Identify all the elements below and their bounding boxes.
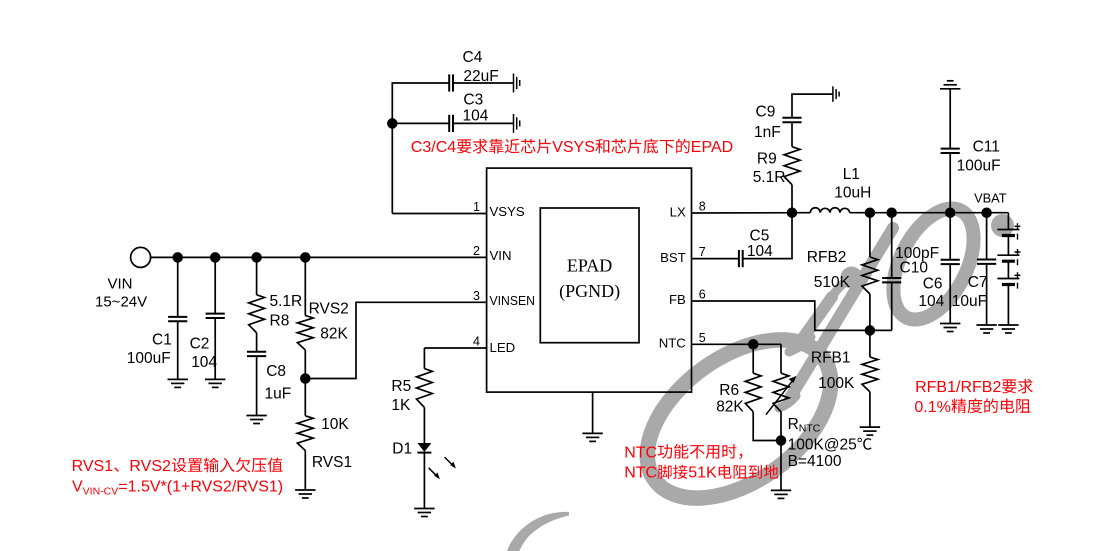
node VIN-RVS2 — [301, 253, 310, 262]
node FB divider — [866, 326, 875, 335]
svg-text:(PGND): (PGND) — [559, 281, 620, 302]
svg-text:EPAD: EPAD — [691, 139, 733, 156]
wire C2 to gnd — [214, 318, 216, 379]
svg-text:RVS2: RVS2 — [309, 301, 349, 318]
node RVS2-RVS1 — [301, 374, 310, 383]
resistor R8 — [249, 295, 265, 333]
svg-text:6: 6 — [699, 288, 706, 302]
svg-text:VINSEN: VINSEN — [490, 293, 536, 308]
capacitor C5 — [739, 250, 743, 267]
node VIN-C1 — [173, 253, 182, 262]
svg-text:R9: R9 — [757, 151, 777, 168]
svg-text:NTC: NTC — [659, 336, 687, 351]
wire R9 lead — [791, 185, 793, 213]
ground RNTC — [771, 490, 791, 498]
ground C3 — [514, 114, 520, 133]
ground C1 — [168, 379, 188, 387]
watermark letter C — [503, 512, 569, 551]
svg-text:82K: 82K — [320, 326, 348, 343]
capacitor C2 — [206, 314, 225, 318]
svg-text:2: 2 — [473, 244, 480, 258]
wire RVS1 to gnd — [304, 451, 306, 491]
svg-text:B=4100: B=4100 — [788, 453, 842, 470]
capacitor C8 — [247, 352, 266, 356]
svg-text:RFB1/RFB2: RFB1/RFB2 — [915, 379, 1001, 396]
capacitor C9 — [782, 118, 801, 122]
node LX — [788, 208, 797, 217]
node VBAT-C6 — [946, 208, 955, 217]
wire C4 to gnd — [453, 82, 514, 84]
thermistor arrow — [766, 380, 794, 415]
svg-text:100K@25: 100K@25 — [788, 437, 857, 454]
node VIN-C2 — [211, 253, 220, 262]
wire RVS2-RVS1 — [304, 350, 306, 416]
ground C11 top — [940, 81, 960, 89]
capacitor C3 — [449, 115, 453, 132]
capacitor C6 — [941, 260, 960, 264]
svg-text:RVS1: RVS1 — [312, 454, 352, 471]
wire C6 to gnd — [949, 264, 951, 323]
node VIN-R8 — [252, 253, 261, 262]
ground RFB1 — [860, 427, 880, 435]
svg-text:VSYS: VSYS — [552, 139, 595, 156]
svg-text:D1: D1 — [392, 441, 412, 458]
wire R8 lead — [256, 257, 258, 294]
resistor RFB1 — [862, 357, 878, 392]
svg-text:C4: C4 — [463, 49, 483, 66]
ground C4 — [514, 74, 520, 93]
op-amp U1 charger IC body — [487, 168, 692, 392]
svg-text:510K: 510K — [814, 274, 851, 291]
watermark period — [991, 214, 1014, 237]
wire R5 lead — [423, 348, 425, 369]
svg-text:51K: 51K — [688, 465, 717, 482]
svg-text:RFB2: RFB2 — [807, 249, 847, 266]
svg-text:NTC: NTC — [624, 444, 657, 461]
wire RFB1 lead top — [869, 330, 871, 357]
svg-text:4: 4 — [473, 335, 480, 349]
wire R9-C9 — [791, 122, 793, 147]
wire C1 to gnd — [177, 321, 179, 379]
wire C3 branch — [392, 122, 449, 124]
resistor RVS2 — [297, 316, 313, 351]
thermistor RNTC — [773, 373, 789, 412]
wire C7 to gnd — [986, 264, 988, 325]
wire LED pin — [424, 347, 486, 349]
wire C8 to gnd — [256, 356, 258, 415]
resistor R9 — [784, 147, 800, 185]
inductor L1 — [810, 208, 849, 213]
svg-text:3: 3 — [473, 289, 480, 303]
ground C6 — [940, 324, 960, 332]
svg-text:104: 104 — [747, 243, 773, 260]
svg-text:NTC: NTC — [624, 465, 657, 482]
wire D1 to gnd — [423, 453, 425, 509]
wire C1 lead — [177, 257, 179, 317]
svg-text:C3/C4: C3/C4 — [411, 139, 456, 156]
wire BST pin — [692, 258, 739, 260]
svg-text:FB: FB — [669, 292, 686, 307]
ground D1 — [414, 509, 434, 517]
wire C7 lead — [986, 213, 988, 260]
svg-text:100K: 100K — [818, 375, 855, 392]
wire C5 to LX — [743, 213, 792, 259]
svg-text:BST: BST — [660, 250, 686, 265]
ground C7 — [976, 325, 996, 333]
capacitor C1 — [168, 317, 187, 321]
watermark letter r — [789, 267, 863, 353]
svg-text:C2: C2 — [190, 335, 210, 352]
wire C10 lead top — [891, 213, 893, 278]
ground C2 — [205, 379, 225, 387]
wire C11 lead bot — [949, 153, 951, 213]
wire R5-D1 — [423, 407, 425, 443]
wire chip gnd stem — [592, 392, 594, 433]
svg-text:1uF: 1uF — [265, 385, 292, 402]
wire C11 lead top — [949, 89, 951, 149]
wire RFB1 to gnd — [869, 392, 871, 427]
svg-text:LED: LED — [490, 340, 516, 355]
svg-text:R6: R6 — [719, 382, 739, 399]
svg-text:C3: C3 — [463, 91, 483, 108]
svg-text:8: 8 — [699, 200, 706, 214]
svg-text:104: 104 — [191, 354, 217, 371]
resistor R6 — [745, 373, 761, 412]
svg-text:5.1R: 5.1R — [270, 293, 303, 310]
ground chip EPAD — [582, 433, 602, 441]
node VBAT-C7 — [982, 208, 991, 217]
svg-text:R8: R8 — [270, 313, 290, 330]
svg-text:100uF: 100uF — [957, 157, 1001, 174]
resistor RFB2 — [862, 257, 878, 294]
svg-text:C1: C1 — [152, 331, 172, 348]
ground RVS1 — [295, 490, 315, 498]
wire R6 lead bot — [753, 412, 781, 441]
svg-text:7: 7 — [699, 245, 706, 259]
svg-text:C8: C8 — [266, 363, 286, 380]
wire VSYS pin — [392, 213, 486, 215]
svg-text:C5: C5 — [750, 228, 770, 245]
node RNTC gnd — [777, 436, 786, 445]
svg-text:EPAD: EPAD — [567, 256, 612, 276]
svg-text:1nF: 1nF — [754, 124, 781, 141]
svg-text:5: 5 — [699, 331, 706, 345]
svg-text:RVS2: RVS2 — [129, 458, 171, 475]
wire NTC pin — [692, 343, 782, 345]
watermark letter p — [779, 196, 990, 408]
capacitor C10 — [882, 278, 901, 282]
svg-text:104: 104 — [918, 293, 944, 310]
wire R6 lead top — [752, 344, 754, 373]
svg-text:C10: C10 — [900, 260, 929, 277]
svg-text:VIN: VIN — [108, 276, 133, 293]
wire RNTC lead top — [780, 344, 782, 373]
wire C9 to gnd — [792, 94, 833, 118]
node L1-C10 — [887, 208, 896, 217]
capacitor C4 — [449, 74, 453, 91]
svg-text:5.1R: 5.1R — [753, 169, 786, 186]
svg-text:C9: C9 — [756, 104, 776, 121]
resistor RVS1 — [297, 416, 313, 451]
wire VSYS riser — [392, 83, 449, 214]
capacitor C7 — [977, 260, 996, 264]
wire VIN rail — [151, 256, 487, 258]
svg-text:C11: C11 — [973, 139, 1000, 156]
svg-text:1: 1 — [473, 200, 480, 214]
ground C8 — [246, 416, 266, 424]
svg-text:C6: C6 — [923, 276, 943, 293]
wire FB pin — [692, 301, 892, 330]
svg-text:10K: 10K — [321, 416, 349, 433]
wire RNTC lead bot — [780, 412, 782, 441]
capacitor C11 — [941, 149, 960, 153]
wire VBAT rail — [850, 212, 1009, 214]
svg-text:VSYS: VSYS — [490, 204, 525, 219]
wire VINSEN tap — [305, 302, 486, 378]
svg-text:10uH: 10uH — [834, 184, 871, 201]
svg-text:100uF: 100uF — [127, 350, 171, 367]
svg-text:VBAT: VBAT — [974, 190, 1007, 205]
wire RFB2 lead bot — [869, 294, 871, 330]
svg-text:RVS1: RVS1 — [72, 458, 114, 475]
svg-text:22uF: 22uF — [463, 68, 498, 85]
svg-text:82K: 82K — [716, 399, 744, 416]
resistor R5 — [417, 369, 433, 408]
wire C3 to gnd — [453, 122, 514, 124]
wire RNTC to gnd — [780, 441, 782, 491]
wire LX rail — [692, 212, 811, 214]
VIN terminal circle — [131, 247, 151, 267]
battery BT1 — [997, 213, 1020, 325]
diode D1 LED — [417, 443, 456, 479]
wire C10 lead bot — [891, 282, 893, 330]
svg-text:10uF: 10uF — [952, 293, 987, 310]
ground C9 — [833, 86, 839, 102]
svg-text:R5: R5 — [391, 378, 411, 395]
watermark letter o — [618, 308, 859, 531]
wire C6 lead — [949, 213, 951, 260]
svg-text:VIN: VIN — [490, 248, 512, 263]
node NTC-R6 — [749, 340, 758, 349]
svg-text:1K: 1K — [391, 397, 411, 414]
svg-text:LX: LX — [670, 204, 686, 219]
svg-text:0.1%: 0.1% — [914, 399, 950, 416]
svg-text:RFB1: RFB1 — [811, 350, 851, 367]
wire RVS2 lead — [304, 257, 306, 315]
svg-text:104: 104 — [463, 108, 489, 125]
ground battery — [998, 325, 1018, 333]
EPAD (PGND) pad — [540, 208, 639, 343]
svg-text:15~24V: 15~24V — [95, 294, 147, 311]
wire C2 lead — [214, 257, 216, 313]
wire R8-C8 — [256, 333, 258, 352]
wire RFB2 lead top — [869, 213, 871, 257]
svg-text:L1: L1 — [843, 166, 860, 183]
node C3 tap — [388, 119, 397, 128]
svg-text:C7: C7 — [968, 274, 988, 291]
node L1-RFB2 — [866, 208, 875, 217]
